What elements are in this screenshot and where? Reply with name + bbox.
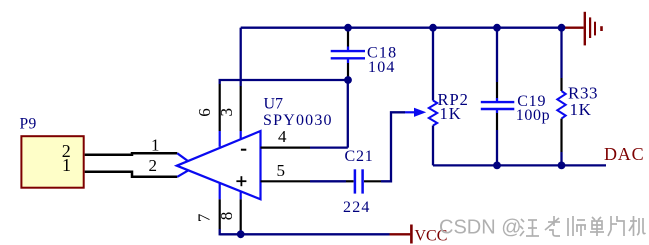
capacitor C19 plates [481,101,515,103]
capacitor C18 top pin [347,28,349,47]
pin 5 black stub [261,180,311,182]
op-amp U7 triangle [177,131,261,199]
汪 [520,219,539,236]
op-amp plus input mark [236,180,246,182]
svg-text:7: 7 [195,213,214,222]
pin 3 riser wire to top rail [240,28,242,86]
svg-text:5: 5 [277,161,286,180]
junction dot R33 bottom [558,162,566,170]
junction dot C19 top [493,24,501,32]
pin 7 blue segment [219,183,221,199]
pin 6 (blue part inside graphic) [219,131,221,147]
resistor R33 top pin [560,78,562,91]
svg-text:CSDN @: CSDN @ [439,217,522,239]
DAC rail wire [433,164,606,166]
wire pin5 to C21 [310,180,346,182]
capacitor C19 bottom wire [496,130,498,165]
svg-text:6: 6 [195,108,214,117]
wire pin4 to feedback node [310,146,348,148]
svg-text:1: 1 [62,155,71,175]
junction dot C19 bottom [493,162,501,170]
svg-text:2: 2 [149,156,158,175]
pin 3 blue segment [240,131,242,140]
second rail wire (pin6 / C18 bottom / pin4) [220,80,348,84]
pin 8 black stub [240,199,242,230]
pin 7 wire to VCC rail [219,229,221,235]
wire net 1 from P9 pin 2 to op-amp output [85,153,178,154]
resistor R33 top wire [560,28,562,78]
potentiometer RP2 zigzag [429,101,437,126]
capacitor C21 right pin [364,180,381,182]
svg-text:DAC: DAC [604,144,644,164]
potentiometer RP2 top wire [432,28,434,101]
VCC rail wire [220,233,390,235]
师 [568,216,586,236]
ground symbol lead [562,27,584,29]
capacitor C21 plates [354,169,357,193]
wire C21 to RP2 wiper [381,112,405,181]
capacitor C18 bottom pin [347,59,349,63]
connector P9 body [21,136,83,188]
resistor R33 zigzag [557,91,565,119]
svg-text:1K: 1K [570,100,592,119]
VCC power symbol bar [410,225,413,244]
pin 6 black stub [219,84,221,131]
pin 3 black stub [240,86,242,131]
pin 8 blue segment [240,191,242,199]
junction dot R33 top / ground [558,24,566,32]
top rail wire [241,27,562,29]
svg-text:1K: 1K [440,104,462,123]
capacitor C19 top wire [496,28,498,82]
机 [629,216,646,236]
svg-text:100p: 100p [516,107,550,124]
pin 8 wire to VCC rail [240,230,242,234]
op-amp minus input mark [241,149,246,151]
pin 7 black stub [219,199,221,229]
junction dot C18 top [344,24,352,32]
capacitor C19 bottom pin [496,110,498,113]
svg-text:1: 1 [151,135,160,154]
potentiometer RP2 bottom wire [432,126,434,166]
resistor R33 bottom pin [560,119,562,152]
wire stub to op-amp lower output [177,170,188,177]
VCC power symbol lead [390,233,411,235]
ground symbol bars [584,12,586,46]
svg-text:U7: U7 [264,96,284,113]
wire riser pin4 up to C18 node [347,80,349,148]
junction dot C18 bottom node [344,76,352,84]
watermark chinese glyphs (drawn strokes) [520,216,646,236]
svg-text:8: 8 [217,212,236,221]
svg-text:104: 104 [368,59,396,76]
capacitor C21 left pin [346,180,354,182]
svg-text:4: 4 [278,127,287,146]
wire stub to op-amp upper output [177,153,188,161]
片 [608,216,624,236]
resistor R33 bottom wire [560,152,562,165]
svg-text:SPY0030: SPY0030 [263,112,333,129]
pin 4 black stub [261,147,311,149]
junction dot pin 8 on VCC rail [237,230,245,238]
wire net 2 from P9 pin 1 to op-amp output [85,172,178,177]
capacitor C18 plates [331,50,365,52]
svg-text:224: 224 [343,199,371,216]
junction dot RP2 top [429,24,437,32]
capacitor C19 top pin [496,82,498,98]
svg-text:3: 3 [217,108,236,117]
RP2 wiper arrow [405,111,415,113]
svg-text:P9: P9 [20,116,37,133]
svg-text:C21: C21 [345,148,374,165]
单 [590,217,604,236]
老 [545,216,560,236]
